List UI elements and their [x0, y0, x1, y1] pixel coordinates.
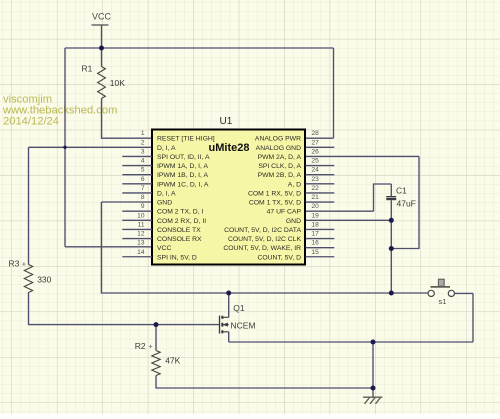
svg-text:COUNT, 5V, D: COUNT, 5V, D — [257, 254, 301, 261]
svg-text:D, I, A: D, I, A — [157, 145, 176, 152]
svg-text:1: 1 — [141, 130, 145, 137]
svg-text:12: 12 — [137, 231, 145, 238]
svg-text:17: 17 — [312, 231, 320, 238]
svg-text:25: 25 — [312, 158, 320, 165]
svg-text:GND: GND — [286, 218, 301, 225]
svg-text:7: 7 — [141, 185, 145, 192]
svg-text:COM 1 RX, 5V, D: COM 1 RX, 5V, D — [248, 190, 301, 197]
svg-text:10: 10 — [137, 212, 145, 219]
svg-text:20: 20 — [312, 203, 320, 210]
svg-text:IPWM 1A, D, I, A: IPWM 1A, D, I, A — [157, 163, 208, 170]
svg-text:IPWM 1C, D, I, A: IPWM 1C, D, I, A — [157, 181, 209, 188]
svg-text:21: 21 — [312, 194, 320, 201]
svg-text:NCEM: NCEM — [231, 321, 256, 331]
svg-text:COM 2 TX, D, I: COM 2 TX, D, I — [157, 209, 203, 216]
svg-text:5: 5 — [141, 167, 145, 174]
svg-text:2: 2 — [141, 139, 145, 146]
svg-text:A, D: A, D — [288, 181, 301, 188]
svg-text:Q1: Q1 — [233, 303, 245, 313]
svg-text:9: 9 — [141, 203, 145, 210]
svg-text:COUNT, 5V, D, I2C CLK: COUNT, 5V, D, I2C CLK — [228, 236, 301, 243]
svg-text:11: 11 — [138, 221, 145, 228]
svg-text:ANALOG PWR: ANALOG PWR — [255, 136, 301, 143]
svg-text:R2: R2 — [135, 341, 146, 351]
svg-text:COUNT, 5V, D, I2C DATA: COUNT, 5V, D, I2C DATA — [224, 227, 301, 234]
svg-text:uMite28: uMite28 — [209, 142, 250, 154]
svg-text:PWM 2B, D, A: PWM 2B, D, A — [258, 172, 302, 179]
svg-text:VCC: VCC — [157, 245, 171, 252]
svg-text:SPI IN, 5V, D: SPI IN, 5V, D — [157, 254, 197, 261]
svg-text:COUNT, 5V, D, WAKE, IR: COUNT, 5V, D, WAKE, IR — [223, 245, 301, 252]
svg-text:47K: 47K — [165, 356, 180, 366]
svg-text:13: 13 — [137, 240, 145, 247]
svg-text:6: 6 — [141, 176, 145, 183]
svg-text:2014/12/24: 2014/12/24 — [3, 116, 59, 128]
svg-text:GND: GND — [157, 200, 172, 207]
svg-text:SPI CLK, D, A: SPI CLK, D, A — [258, 163, 301, 170]
svg-text:VCC: VCC — [92, 12, 112, 22]
svg-text:16: 16 — [312, 240, 320, 247]
svg-text:PWM 2A, D, A: PWM 2A, D, A — [258, 154, 302, 161]
svg-text:R1: R1 — [82, 64, 93, 74]
svg-text:24: 24 — [312, 167, 320, 174]
svg-text:22: 22 — [312, 185, 320, 192]
svg-text:19: 19 — [312, 212, 320, 219]
svg-text:CONSOLE RX: CONSOLE RX — [157, 236, 202, 243]
svg-text:18: 18 — [312, 221, 320, 228]
svg-text:26: 26 — [312, 148, 320, 155]
svg-text:U1: U1 — [220, 116, 233, 127]
svg-text:s1: s1 — [439, 297, 447, 306]
svg-text:47 UF CAP: 47 UF CAP — [267, 209, 302, 216]
svg-text:47uF: 47uF — [397, 199, 416, 209]
svg-text:RESET [TIE HIGH]: RESET [TIE HIGH] — [157, 136, 215, 143]
svg-text:14: 14 — [137, 249, 145, 256]
svg-text:D, I, A: D, I, A — [157, 190, 176, 197]
svg-text:ANALOG GND: ANALOG GND — [256, 145, 301, 152]
svg-text:15: 15 — [312, 249, 320, 256]
svg-text:23: 23 — [312, 176, 320, 183]
svg-text:8: 8 — [141, 194, 145, 201]
svg-text:SPI OUT, ID, II, A: SPI OUT, ID, II, A — [157, 154, 210, 161]
svg-text:3: 3 — [141, 148, 145, 155]
svg-text:4: 4 — [141, 158, 145, 165]
svg-text:IPWM 1B, D, I, A: IPWM 1B, D, I, A — [157, 172, 208, 179]
svg-text:27: 27 — [312, 139, 320, 146]
svg-text:330: 330 — [37, 275, 51, 285]
svg-text:R3: R3 — [9, 259, 20, 269]
svg-text:COM 1 TX, 5V, D: COM 1 TX, 5V, D — [249, 200, 301, 207]
svg-text:28: 28 — [312, 130, 320, 137]
svg-text:COM 2 RX, D, II: COM 2 RX, D, II — [157, 218, 206, 225]
svg-text:C1: C1 — [396, 186, 407, 196]
svg-text:CONSOLE TX: CONSOLE TX — [157, 227, 201, 234]
svg-text:10K: 10K — [110, 78, 125, 88]
